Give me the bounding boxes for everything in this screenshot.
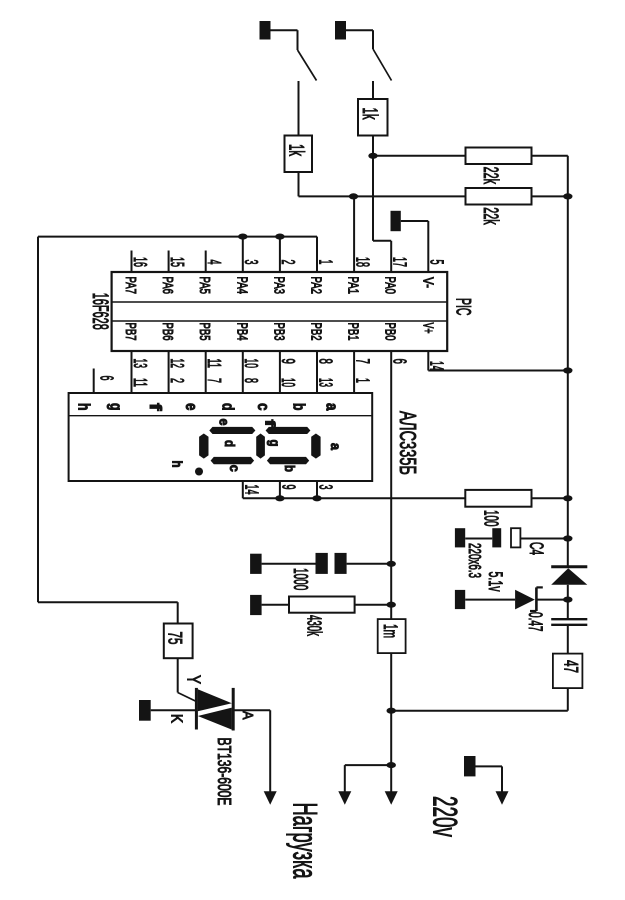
wire left rail down: [37, 237, 39, 603]
svg-text:PB5: PB5: [196, 323, 213, 341]
wire pin V+ to right rail: [427, 351, 429, 371]
arrow 220v line: [496, 791, 509, 805]
right rail vertical wire: [567, 156, 569, 567]
wire display commons to resistor R5: [243, 497, 465, 499]
arrow to load: [264, 791, 277, 805]
wire R1 to node net-PA1: [298, 172, 300, 196]
svg-text:6: 6: [390, 359, 410, 364]
svg-text:f: f: [263, 420, 279, 427]
node R5/rail junction: [563, 495, 572, 501]
wire node to pin PA3: [279, 237, 281, 272]
svg-text:a: a: [328, 443, 344, 450]
wire R8 down: [390, 653, 392, 792]
digit segment c: [211, 457, 255, 464]
svg-text:PA6: PA6: [159, 277, 176, 295]
svg-text:f: f: [146, 403, 164, 411]
capacitor C1 0.47 plates: [551, 618, 587, 620]
digit decimal point h: [195, 468, 203, 476]
svg-text:8: 8: [315, 359, 335, 364]
wire node to pin PA4: [242, 237, 244, 272]
svg-text:17: 17: [390, 257, 410, 267]
svg-text:10: 10: [278, 378, 298, 387]
wire J8 to MT1: [151, 709, 197, 711]
svg-text:3: 3: [316, 485, 336, 490]
svg-text:16: 16: [130, 257, 150, 267]
digit segment g: [256, 434, 265, 459]
svg-text:PB7: PB7: [122, 323, 139, 341]
capacitor C2 1000 right plate: [335, 553, 347, 574]
triac VS1 upper triangle: [198, 689, 232, 711]
connector J9 (220v input): [464, 756, 476, 776]
wire J5 to zener VD2: [465, 599, 515, 601]
svg-text:18: 18: [352, 257, 372, 267]
svg-text:3: 3: [241, 260, 261, 265]
digit segment b: [267, 457, 309, 464]
wire S2 to resistor R2: [372, 81, 374, 99]
svg-text:b: b: [282, 465, 298, 472]
connector J3 (to pin V-): [391, 211, 401, 231]
svg-text:100: 100: [480, 510, 502, 527]
svg-text:220x6.3: 220x6.3: [465, 543, 485, 578]
svg-text:9: 9: [278, 359, 298, 364]
svg-text:14: 14: [241, 485, 261, 495]
connector J1 (switch S1 input): [260, 21, 271, 40]
svg-text:PIC: PIC: [452, 298, 475, 316]
wire node to resistor R3: [373, 155, 466, 157]
svg-text:13: 13: [130, 359, 150, 369]
svg-text:PA0: PA0: [382, 277, 399, 295]
node VD2/rail junction: [563, 597, 572, 603]
svg-text:8: 8: [241, 378, 261, 383]
digit segment d: [199, 434, 208, 459]
resistor R3 22k: [466, 148, 532, 165]
svg-text:PA3: PA3: [270, 277, 287, 295]
node pin9/line: [275, 495, 284, 501]
svg-text:e: e: [182, 403, 200, 411]
wire C1 to resistor R6: [567, 625, 569, 654]
svg-text:16F628: 16F628: [88, 293, 113, 330]
svg-text:PA4: PA4: [233, 277, 250, 295]
op: PIC IC U1 16F628 body: [112, 272, 448, 351]
arrow to 220v right: [385, 791, 398, 805]
svg-text:b: b: [289, 403, 307, 411]
svg-text:d: d: [219, 403, 237, 411]
svg-text:C4: C4: [525, 542, 546, 555]
svg-text:PB6: PB6: [159, 323, 176, 341]
resistor R6 47: [553, 654, 583, 689]
svg-text:1k: 1k: [285, 144, 308, 156]
svg-text:15: 15: [167, 257, 187, 267]
resistor R9 75: [164, 624, 193, 659]
diode VD1 triangle: [551, 568, 587, 585]
wire R2 down to pin PA0: [372, 136, 374, 241]
zener diode VD2 5.1v triangle: [515, 590, 535, 610]
capacitor C4 220x6.3 negative plate: [492, 528, 501, 547]
triac VS1 MT2 bar: [232, 688, 235, 731]
wire pin PB7 to display: [131, 351, 133, 393]
capacitor C4 220x6.3 positive plate: [511, 528, 520, 547]
wire C4 to right rail: [520, 538, 567, 540]
wire J9 to arrow: [476, 765, 503, 767]
wire net-PA1 horizontal: [299, 195, 466, 197]
wire S1 to resistor R1: [298, 81, 300, 136]
triac VS1 lower triangle: [198, 708, 232, 730]
triac VS1 MT1 bar: [195, 688, 198, 730]
wire C2 to PB0 rail: [347, 563, 392, 565]
wire branch to left arrow: [345, 764, 391, 766]
wire J7 to resistor R7: [262, 604, 289, 606]
node R2/R3 junction: [368, 153, 377, 159]
connector J4 (C4 input): [455, 528, 465, 547]
svg-text:1: 1: [315, 260, 335, 265]
svg-text:BT136-600E: BT136-600E: [214, 738, 235, 806]
svg-text:a: a: [323, 403, 341, 411]
svg-text:75: 75: [164, 632, 185, 645]
svg-text:PA1: PA1: [345, 277, 362, 295]
wire R4 to right rail: [532, 195, 568, 197]
svg-text:2: 2: [167, 378, 187, 383]
connector J8 (triac MT1): [139, 700, 151, 721]
resistor R8 1m: [378, 619, 406, 653]
svg-text:12: 12: [167, 359, 187, 369]
connector J6 (1000pF input): [250, 554, 262, 574]
svg-text:c: c: [254, 403, 272, 411]
pin stub PA7: [131, 251, 133, 273]
wire J6 to capacitor C2: [262, 563, 316, 565]
wire VD1 to capacitor C1: [567, 585, 569, 619]
svg-text:5.1v: 5.1v: [484, 572, 506, 592]
svg-text:A: A: [239, 711, 256, 720]
svg-text:V-: V-: [419, 277, 436, 288]
svg-text:PA5: PA5: [196, 277, 213, 295]
node at pin PA4: [238, 234, 247, 240]
svg-text:PB2: PB2: [308, 323, 325, 341]
switch S2 blade: [373, 49, 392, 81]
svg-text:h: h: [75, 403, 93, 411]
svg-text:1m: 1m: [379, 624, 400, 638]
display common pin 9 stub: [279, 481, 281, 498]
svg-text:c: c: [227, 465, 243, 472]
diode VD1 cathode bar: [551, 565, 587, 568]
wire pin PB2 to display: [316, 351, 318, 393]
svg-text:АЛС335Б: АЛС335Б: [395, 411, 421, 475]
svg-text:K: K: [168, 714, 185, 723]
connector J5 (zener input): [455, 590, 465, 609]
wire pin PB5 to display: [205, 351, 207, 393]
svg-text:47: 47: [560, 660, 581, 673]
zener VD2 cathode hook bottom: [530, 610, 536, 612]
pin stub PA5: [205, 251, 207, 273]
node C2/rail junction: [387, 561, 396, 567]
display common pin 3 stub: [316, 481, 318, 498]
digit segment f: [266, 427, 311, 434]
wire J2 to switch S2: [346, 29, 373, 31]
wire R6 down and left to rail node: [567, 688, 569, 711]
svg-text:1000: 1000: [289, 568, 312, 590]
svg-text:PB0: PB0: [382, 323, 399, 341]
wire R5 to right rail: [532, 497, 568, 499]
node at pin PA3: [275, 234, 284, 240]
svg-text:Нагрузка: Нагрузка: [286, 803, 324, 879]
wire J3 to pin V-: [401, 220, 429, 222]
svg-text:2: 2: [278, 260, 298, 265]
display common pin 14 stub: [242, 481, 244, 498]
svg-text:9: 9: [278, 485, 298, 490]
svg-text:V+: V+: [419, 323, 436, 334]
resistor R7 430k: [289, 597, 355, 613]
resistor R5 100: [465, 490, 531, 507]
connector J2 (switch S2 input): [335, 21, 346, 40]
wire J4 to capacitor C4: [465, 538, 492, 540]
node R8/R6 junction: [387, 708, 396, 714]
switch S1 blade: [298, 50, 317, 81]
node C4/rail junction: [563, 535, 572, 541]
wire R9 to triac gate: [177, 658, 179, 692]
resistor R2 1k: [358, 99, 388, 136]
wire pin PB3 to display: [279, 351, 281, 393]
wire J1 to switch S1: [271, 29, 298, 31]
svg-text:430k: 430k: [303, 615, 325, 636]
node R7/rail junction: [387, 602, 396, 608]
wire pin PB0 down rail: [390, 351, 392, 619]
svg-text:14: 14: [427, 361, 447, 371]
pin stub PA6: [168, 251, 170, 273]
svg-text:1k: 1k: [358, 108, 381, 120]
svg-text:11: 11: [204, 359, 224, 369]
svg-text:e: e: [217, 419, 233, 426]
svg-text:7: 7: [204, 378, 224, 383]
svg-text:PA2: PA2: [308, 277, 325, 295]
svg-text:PA7: PA7: [122, 277, 139, 295]
zener VD2 cathode bar: [535, 587, 538, 611]
svg-text:PB3: PB3: [270, 323, 287, 341]
svg-text:7: 7: [352, 359, 372, 364]
zener VD2 cathode hook top: [536, 586, 542, 588]
wire R3 to right rail: [532, 155, 568, 157]
resistor R1 1k: [285, 136, 313, 173]
connector J7 (430k input): [250, 595, 262, 615]
node V+/rail junction: [563, 367, 572, 373]
svg-text:10: 10: [241, 359, 261, 369]
svg-text:22k: 22k: [479, 167, 502, 185]
svg-text:h: h: [170, 461, 186, 468]
node R4/rail junction: [563, 193, 572, 199]
wire left net to pins PA4 PA3 PA2: [38, 236, 317, 238]
wire MT2 to load arrow: [233, 709, 270, 711]
svg-text:0.47: 0.47: [524, 612, 545, 632]
wire pin PB1 to display: [353, 351, 355, 393]
triac VS1 gate lead: [178, 693, 197, 702]
arrow to 220v left: [338, 791, 351, 805]
svg-text:Y: Y: [184, 675, 204, 684]
capacitor C2 1000 left plate: [316, 553, 328, 574]
svg-text:220v: 220v: [425, 796, 463, 837]
svg-text:g: g: [107, 403, 125, 411]
resistor R4 22k: [466, 188, 532, 205]
wire node to pin PA1: [353, 196, 355, 272]
svg-text:1: 1: [352, 378, 372, 383]
node rail/branch junction: [387, 762, 396, 768]
svg-text:d: d: [222, 440, 238, 447]
svg-text:22k: 22k: [479, 207, 502, 225]
wire R7 to PB0 rail: [355, 604, 392, 606]
svg-text:g: g: [267, 440, 283, 447]
svg-text:11: 11: [130, 378, 150, 387]
svg-text:4: 4: [204, 260, 224, 265]
svg-text:5: 5: [427, 260, 447, 265]
wire pin PB6 to display: [168, 351, 170, 393]
node net-PA1 at pin PA1: [349, 193, 358, 199]
wire pin PB4 to display: [242, 351, 244, 393]
digit segment e: [209, 427, 255, 434]
display HG1 ALS335B body: [69, 393, 373, 481]
digit segment a: [311, 434, 320, 459]
display pin h stub: [93, 369, 95, 394]
svg-text:PB4: PB4: [233, 323, 250, 341]
svg-text:6: 6: [97, 376, 117, 381]
svg-text:13: 13: [315, 378, 335, 387]
node pin3/line: [312, 495, 321, 501]
svg-text:PB1: PB1: [345, 323, 362, 341]
wire VD2 to right rail: [536, 599, 567, 601]
